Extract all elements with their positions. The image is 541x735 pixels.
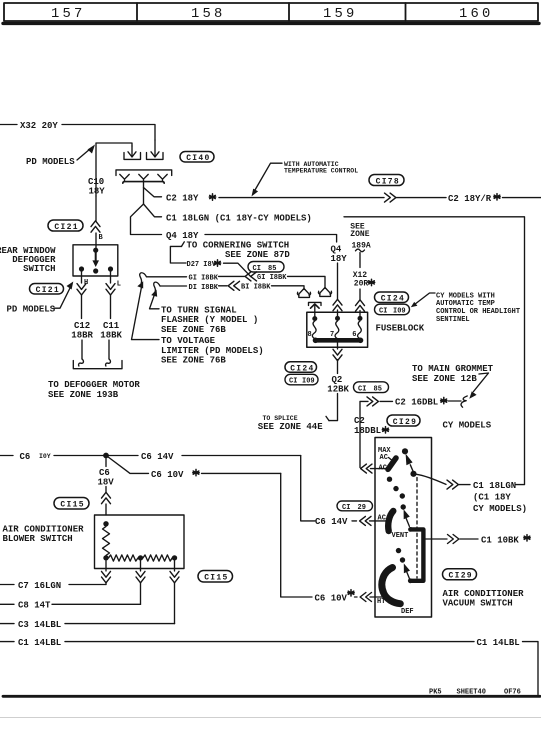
junction dot C6 [103, 453, 109, 459]
wire X32 20Y to connector C140 [62, 125, 155, 141]
wire C12 continues [81, 295, 83, 319]
wire C11 continues [110, 295, 112, 319]
switch wiper arrow [95, 252, 97, 261]
svg-text:CY MODELS: CY MODELS [443, 421, 492, 431]
connector label C124 right [375, 292, 409, 303]
svg-text:C11: C11 [103, 321, 120, 331]
svg-text:C3 14LBL: C3 14LBL [18, 620, 61, 630]
svg-text:CI24: CI24 [290, 364, 314, 373]
svg-text:(C1 18Y: (C1 18Y [473, 492, 511, 502]
wire Q4 18Y to fuseblock drop [205, 235, 337, 243]
svg-text:157: 157 [51, 7, 85, 22]
svg-text:DEF: DEF [401, 608, 414, 616]
svg-text:PD MODELS: PD MODELS [7, 304, 56, 314]
tent terminal G1 at fuseblock [318, 288, 331, 295]
svg-text:I09: I09 [393, 307, 406, 315]
connector label C115 lower [198, 571, 233, 583]
fuseblock pin 8 arrow [311, 304, 320, 308]
wire C6 14V to right [182, 455, 301, 457]
wire B1 18BK to fuseblock tent [272, 286, 305, 289]
zone header divider 2 [288, 3, 290, 21]
connector label C124 left [285, 362, 317, 373]
svg-text:LIMITER (PD MODELS): LIMITER (PD MODELS) [161, 346, 264, 356]
wire X12 20R from zone 189A [359, 253, 361, 268]
inline connector chevrons C11 (down) [106, 284, 115, 295]
wire C6 bus left stub [0, 455, 13, 457]
inline connector chevrons D1 (pointing left) [228, 281, 239, 290]
svg-text:CI: CI [342, 504, 350, 512]
connector C140 right socket [147, 153, 164, 160]
leader from grommet note to C2 wire end [474, 373, 489, 392]
svg-text:CI29: CI29 [393, 418, 417, 427]
wire C12 from switch H [81, 272, 83, 284]
defogger motor bracket [73, 361, 122, 369]
splice asterisk C2 18Y/R [494, 194, 500, 200]
inline connector chevrons Q2 (down) [333, 349, 342, 360]
svg-text:18Y: 18Y [331, 254, 348, 264]
connector label C1 109 right [375, 304, 410, 315]
wire stem from C140 [143, 182, 145, 204]
leader from note to C2 wire [255, 163, 282, 190]
svg-text:AUTOMATIC TEMP: AUTOMATIC TEMP [436, 300, 495, 308]
wire C10 18Y riser (PD models) [96, 143, 132, 196]
leader from flasher note to D1 hook [150, 295, 160, 309]
svg-text:7: 7 [330, 331, 334, 339]
wire C6 18V drop [105, 459, 107, 467]
leader from limiter note to G1 hook [132, 287, 160, 340]
svg-text:6: 6 [352, 331, 356, 339]
svg-text:C12: C12 [74, 321, 90, 331]
svg-text:TO CORNERING SWITCH: TO CORNERING SWITCH [187, 240, 290, 250]
fuse element 6 [358, 321, 362, 340]
svg-text:TO DEFOGGER MOTOR: TO DEFOGGER MOTOR [48, 380, 140, 390]
svg-text:C10: C10 [88, 177, 104, 187]
svg-text:158: 158 [191, 7, 225, 22]
connector label C1 85 lower [354, 382, 389, 393]
air conditioner blower switch box [95, 515, 185, 569]
air conditioner vacuum switch box [375, 438, 432, 618]
inline connector chevrons C6 18V (up) [102, 492, 111, 503]
wire C1 18LGN from vacuum switch [417, 474, 447, 484]
svg-text:CI24: CI24 [381, 295, 405, 304]
svg-text:TO VOLTAGE: TO VOLTAGE [161, 336, 216, 346]
wire C2 18Y to the right [219, 197, 384, 199]
svg-text:TO SPLICE: TO SPLICE [263, 415, 298, 422]
fuseblock bus bar [316, 338, 361, 343]
hook terminal C2 [461, 396, 467, 407]
svg-text:C6 14V: C6 14V [315, 517, 348, 527]
connector label C121 lower [30, 284, 64, 295]
svg-text:CI: CI [289, 378, 297, 386]
svg-text:C1 18LGN: C1 18LGN [473, 481, 516, 491]
connector label C129 lower [443, 569, 477, 580]
svg-text:8: 8 [308, 331, 312, 339]
svg-text:C2: C2 [354, 416, 365, 426]
wire split node to C1 and Q4 [131, 204, 162, 235]
connector label C1 109 left [285, 374, 318, 385]
svg-text:BLOWER SWITCH: BLOWER SWITCH [3, 534, 73, 544]
svg-text:C6 10V: C6 10V [315, 593, 348, 603]
connector C140 left socket [124, 153, 141, 160]
wire X12 into fuseblock [359, 289, 361, 300]
svg-text:29: 29 [358, 504, 366, 512]
svg-text:AIR CONDITIONER: AIR CONDITIONER [443, 589, 525, 599]
blower resistor tap 1 [103, 555, 108, 560]
svg-text:159: 159 [323, 7, 357, 22]
wire to grommet hook [449, 400, 462, 402]
wire X32 20Y left stub [0, 124, 17, 126]
selector dots lower [396, 548, 401, 553]
wire C2 18Y/R [397, 197, 447, 199]
svg-text:SEE ZONE 12B: SEE ZONE 12B [412, 374, 477, 384]
svg-text:20R: 20R [354, 279, 369, 288]
svg-text:VACUUM SWITCH: VACUUM SWITCH [443, 599, 513, 609]
switch contact common [93, 248, 98, 253]
svg-text:18BR: 18BR [71, 331, 93, 341]
wire Q2 continues [337, 360, 339, 374]
svg-text:18Y: 18Y [89, 187, 106, 197]
svg-text:85: 85 [268, 265, 276, 273]
wire C11 from switch L [110, 272, 112, 284]
svg-text:CI40: CI40 [186, 154, 210, 163]
inline connector chevrons C12 (down) [77, 284, 86, 295]
svg-text:GI I8BK: GI I8BK [257, 274, 287, 282]
svg-text:TEMPERATURE CONTROL: TEMPERATURE CONTROL [284, 167, 358, 174]
svg-text:FLASHER (Y MODEL ): FLASHER (Y MODEL ) [161, 315, 258, 325]
switch contact H [79, 266, 84, 271]
selector position dots [387, 477, 392, 482]
socket under B1 tent [299, 294, 310, 297]
inline connector chevrons X12 (up) [356, 300, 365, 311]
hook terminal G1 [140, 273, 147, 283]
svg-text:I0Y: I0Y [39, 453, 51, 460]
svg-text:C2 18Y/R: C2 18Y/R [448, 194, 492, 204]
svg-text:PD MODELS: PD MODELS [26, 157, 75, 167]
wire C2 16DBL with chevrons [360, 401, 368, 467]
svg-text:Q2: Q2 [332, 375, 343, 385]
svg-text:C1 18LGN (C1 18Y-CY MODEL: C1 18LGN (C1 18Y-CY MODELS) [166, 213, 312, 223]
svg-text:C2 18Y: C2 18Y [166, 194, 199, 204]
svg-text:CY MODELS WITH: CY MODELS WITH [436, 292, 495, 300]
svg-text:HT: HT [377, 598, 385, 606]
wire C10 into defogger switch [95, 196, 97, 221]
C140 pin 3 Y-terminal [158, 174, 167, 181]
wire C3 exit [174, 561, 176, 571]
vacuum selector arrow 1 [410, 465, 413, 472]
svg-text:CI21: CI21 [36, 286, 60, 295]
zone header divider 1 [136, 3, 138, 21]
svg-text:L: L [117, 280, 121, 288]
wire C8 14T row [0, 603, 14, 605]
wire C6 10V to HT port [281, 473, 312, 597]
leader from CY MODELS note to C1 109 [415, 293, 436, 305]
blower resistor tap 2 [138, 555, 143, 560]
connector label C140 [180, 152, 214, 163]
svg-text:BI I8BK: BI I8BK [241, 284, 271, 292]
vacuum selector dot top [402, 448, 408, 454]
blower resistor top contact [103, 521, 108, 526]
svg-text:CI15: CI15 [204, 574, 228, 583]
wire C6 10V to right [202, 472, 281, 474]
svg-text:SEE ZONE 87D: SEE ZONE 87D [225, 250, 290, 260]
wire C3 14LBL row [0, 623, 14, 625]
wire C1 14LBL to lower border [523, 642, 539, 695]
leader arrow to C10 wire [77, 149, 90, 160]
wire D27 to connector C1-85 [224, 263, 251, 276]
svg-text:SENTINEL: SENTINEL [436, 316, 470, 324]
wire C6 14V to AC port [301, 456, 315, 521]
wire D1 18BK left segment [160, 285, 187, 287]
svg-text:C7 16LGN: C7 16LGN [18, 581, 61, 591]
wire C1 18LGN across top and down right side [344, 217, 525, 485]
splice asterisk C2 18Y [209, 194, 215, 200]
rear window defogger switch box [73, 245, 118, 276]
inline connector chevrons C10 (pointing up) [91, 221, 100, 232]
blower resistor vertical element [103, 526, 110, 555]
svg-text:TO TURN SIGNAL: TO TURN SIGNAL [161, 305, 237, 315]
svg-text:C6 10V: C6 10V [151, 470, 184, 480]
svg-text:SEE ZONE 193B: SEE ZONE 193B [48, 390, 119, 400]
connector C140 right pin arrow [154, 140, 156, 157]
svg-text:CI78: CI78 [376, 177, 400, 186]
svg-text:CY MODELS): CY MODELS) [473, 504, 527, 514]
wire Q4 into fuseblock [337, 263, 339, 299]
svg-text:18BK: 18BK [100, 331, 122, 341]
inline connector chevrons C2-AC (left) [361, 464, 372, 473]
wire C1 14LBL row [0, 641, 14, 643]
switch contact L [108, 266, 113, 271]
svg-text:Q4: Q4 [331, 244, 342, 254]
svg-text:VENT: VENT [392, 532, 409, 540]
vacuum selector arrow 3 [407, 572, 410, 580]
C140 pin 1 Y-terminal [120, 174, 129, 181]
HT/DEF contact arc [382, 568, 400, 604]
svg-text:12BK: 12BK [327, 385, 349, 395]
svg-text:C6: C6 [20, 452, 31, 462]
wire C7 16LGN row [0, 584, 14, 586]
svg-text:CI15: CI15 [60, 501, 84, 510]
wire Q2 tail to splice [329, 394, 338, 421]
fuseblock receptacle bracket pin 8 [309, 302, 322, 305]
fuse terminal dots [312, 316, 317, 321]
svg-text:X32 20Y: X32 20Y [20, 121, 58, 131]
svg-text:CI: CI [358, 385, 366, 393]
blower resistor horizontal element A [109, 555, 138, 561]
connector label C129 upper [387, 415, 420, 426]
connector label C1 85 [248, 262, 284, 273]
C140 output bus [123, 182, 164, 184]
inline connector chevrons Q4 (up) [333, 299, 342, 310]
bottom border thick rule [3, 695, 540, 698]
inline connector chevrons G1 (pointing left) [245, 272, 256, 281]
zone header divider 3 [405, 3, 407, 21]
wire C7 exit [105, 561, 107, 571]
wire C6 bus [54, 455, 138, 457]
wire D1 18BK middle segment [219, 285, 228, 287]
svg-text:C2 16DBL: C2 16DBL [395, 398, 438, 408]
fuseblock box [307, 312, 368, 347]
svg-text:85: 85 [374, 385, 382, 393]
blower resistor horizontal element B [143, 555, 172, 561]
vacuum selector arrow 2 [406, 519, 409, 527]
wire Q2 from fuseblock bus [337, 343, 339, 350]
wire C8 exit [140, 561, 142, 571]
svg-text:CI: CI [379, 307, 387, 315]
zone header box [4, 3, 538, 21]
C140 pin 2 Y-terminal [139, 174, 148, 181]
hook terminal D1 [154, 282, 160, 292]
svg-text:C6 14V: C6 14V [141, 452, 174, 462]
wire break squiggle X12 [356, 249, 365, 252]
connector C140 lower shell bracket [116, 170, 172, 176]
svg-text:I09: I09 [302, 378, 315, 386]
svg-text:FUSEBLOCK: FUSEBLOCK [376, 323, 425, 333]
connector C140 left pin arrow [131, 146, 133, 157]
fuse element 8 [312, 321, 316, 340]
inline connector chevrons C2 [385, 193, 396, 202]
hook terminal C11 [106, 359, 111, 366]
dashed selector track [416, 478, 418, 579]
svg-text:C1 14LBL: C1 14LBL [18, 638, 61, 648]
faint page edge [0, 717, 541, 719]
svg-text:18DBL: 18DBL [354, 426, 381, 436]
svg-text:189A: 189A [352, 241, 371, 250]
svg-text:C1 14LBL: C1 14LBL [477, 638, 520, 648]
svg-text:CONTROL OR HEADLIGHT: CONTROL OR HEADLIGHT [436, 308, 520, 316]
wire C2 18Y/R to right edge [503, 197, 541, 199]
wire C1 10BK from vent bracket [426, 538, 448, 540]
leader to TO CORNERING SWITCH note [170, 246, 186, 263]
wire C6 10V diagonal [108, 457, 149, 474]
connector label C1 29 [337, 501, 373, 511]
fuse element 7 [335, 321, 339, 340]
svg-text:ZONE: ZONE [350, 230, 369, 239]
svg-text:AC: AC [380, 454, 388, 462]
svg-text:CI21: CI21 [54, 223, 78, 232]
wire branch to C2 18Y [144, 188, 162, 197]
svg-text:C1 10BK: C1 10BK [481, 535, 519, 545]
svg-text:D27 I8V: D27 I8V [187, 261, 217, 269]
MAX AC contact bar [388, 458, 396, 469]
vacuum wiper dot [410, 471, 416, 477]
socket under G1 tent [320, 293, 331, 296]
svg-text:GI I8BK: GI I8BK [189, 274, 219, 282]
svg-text:SEE ZONE 44E: SEE ZONE 44E [258, 422, 323, 432]
svg-text:SEE ZONE 76B: SEE ZONE 76B [161, 325, 226, 335]
svg-text:160: 160 [459, 7, 493, 22]
wire C12 tail [81, 340, 83, 359]
svg-text:SEE ZONE 76B: SEE ZONE 76B [161, 356, 226, 366]
wire G1 18BK middle segment [219, 275, 245, 277]
leader arrow to switch corner [54, 288, 70, 308]
svg-text:CI29: CI29 [449, 572, 473, 581]
blower resistor tap 3 [172, 555, 177, 560]
AC contact arc [388, 511, 393, 531]
connector label C178 [369, 175, 404, 186]
tent terminal B1 at fuseblock [297, 289, 310, 296]
svg-text:AIR CONDITIONER: AIR CONDITIONER [3, 524, 85, 534]
svg-text:SWITCH: SWITCH [23, 264, 55, 274]
svg-text:C8 14T: C8 14T [18, 601, 51, 611]
wire G1 18BK left segment [147, 276, 187, 278]
wire G1 18BK to fuseblock tent [288, 276, 326, 287]
wire C11 tail [108, 340, 110, 359]
svg-text:TO MAIN GROMMET: TO MAIN GROMMET [412, 364, 494, 374]
connector label C121 upper [48, 220, 83, 231]
connector label C115 upper [54, 498, 89, 510]
zone header thick bottom rule [3, 22, 539, 25]
VENT bracket contact [412, 529, 424, 580]
svg-text:DI I8BK: DI I8BK [189, 284, 219, 292]
hook terminal C12 [79, 359, 84, 366]
